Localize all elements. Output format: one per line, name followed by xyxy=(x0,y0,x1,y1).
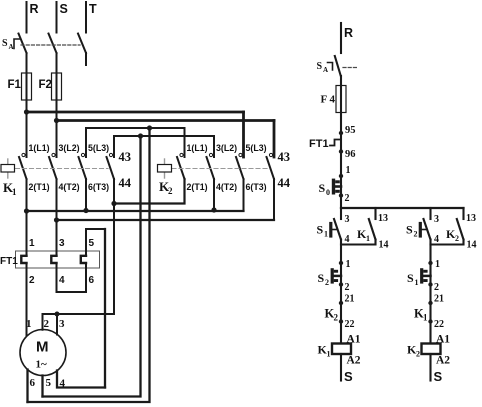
wire K1 4(T2) bottom stub xyxy=(56,179,58,220)
node junction aux44/motor2-3 xyxy=(111,201,116,206)
wire S to fuse F2 xyxy=(56,53,58,121)
coil K1 box xyxy=(1,165,15,173)
wire 96 to 1 xyxy=(340,152,342,177)
pushbutton S0 (NC stop) xyxy=(340,176,342,196)
svg-text:3: 3 xyxy=(434,214,439,225)
wire FT1 input 5 drop xyxy=(85,229,87,248)
node junction on line C at K1 4(T2) xyxy=(54,217,59,222)
node 2 (S1 right) xyxy=(428,282,432,286)
wire bus2 drop to K2 aux 43 xyxy=(273,121,276,158)
svg-text:1: 1 xyxy=(29,238,35,249)
bus line 4 xyxy=(114,135,214,137)
pushbutton S2 (NC) xyxy=(340,263,342,285)
svg-text:F2: F2 xyxy=(39,79,52,91)
wire coil to S xyxy=(340,354,342,381)
svg-text:6(T3): 6(T3) xyxy=(88,182,109,192)
K1 terminal labels xyxy=(29,143,110,192)
node 1 (S1 right) xyxy=(428,261,432,265)
node junction R/bus1 xyxy=(24,109,29,114)
svg-text:2: 2 xyxy=(168,186,173,196)
switch SA control label xyxy=(317,61,329,74)
wire coil to S (right) xyxy=(429,354,431,381)
FT1 terminal labels top xyxy=(29,238,95,249)
wire S1 bottom to node 1 xyxy=(340,240,342,264)
switch SA pole R blade xyxy=(19,34,27,54)
svg-text:6: 6 xyxy=(30,377,36,389)
node 22 (K2 interlock) xyxy=(339,319,343,323)
wire S2 bottom to node 1 (right) xyxy=(429,240,431,264)
svg-text:3: 3 xyxy=(59,238,65,249)
svg-text:2: 2 xyxy=(345,193,350,204)
contact K1 13-14 seal-in stub xyxy=(374,208,376,219)
switch SA linkage dashed xyxy=(21,44,80,46)
svg-text:FT1: FT1 xyxy=(309,138,329,150)
svg-text:21: 21 xyxy=(345,294,355,305)
wire output line A (K1 aux 44 to K2 2(T1)) xyxy=(114,179,185,204)
svg-text:2: 2 xyxy=(44,318,50,330)
thermal relay FT1 box xyxy=(16,251,100,268)
contactor K1 linkage dashed xyxy=(16,168,109,170)
wire K2 2(T1) bottom stub xyxy=(184,179,186,204)
contactor K2 pole 2 blade xyxy=(207,157,215,179)
svg-text:3(L2): 3(L2) xyxy=(216,143,237,153)
wire motor terminal 4 out xyxy=(57,371,105,388)
pushbutton S2 (NO start) blade xyxy=(424,219,431,240)
svg-text:S: S xyxy=(434,369,443,384)
wire S phase drop xyxy=(56,2,58,33)
wire motor terminal 3 stub xyxy=(56,314,58,335)
switch SA pole S blade xyxy=(49,34,57,54)
svg-text:14: 14 xyxy=(467,240,477,251)
fuse F2 xyxy=(52,73,62,100)
switch SA control dashed xyxy=(343,67,358,69)
svg-text:1: 1 xyxy=(324,230,328,239)
contact hooks K1/K2 fixed-contact marks xyxy=(22,153,273,156)
pushbutton S1 (NC right) xyxy=(429,263,431,285)
contact K2 13-14 blade xyxy=(457,219,464,240)
wire 22 to coil A1 xyxy=(340,322,342,344)
wire to 21 xyxy=(340,285,342,304)
wire S2 top stub xyxy=(429,208,431,219)
node junction bus3 / motor wire xyxy=(147,125,152,130)
svg-text:S: S xyxy=(406,223,413,237)
wire aux44 node down to motor 2/3 xyxy=(113,204,115,315)
svg-text:2(T1): 2(T1) xyxy=(187,182,208,192)
wire K1 aux 44 bottom stub xyxy=(113,179,115,204)
svg-text:T: T xyxy=(89,2,97,16)
contactor K1 pole 3 blade xyxy=(79,157,87,179)
wire K2 6(T3) bottom stub xyxy=(243,179,245,211)
coil K1 armature grey line xyxy=(7,159,9,178)
wire motor terminal 6 out xyxy=(26,370,28,403)
switch SA control actuator mark xyxy=(328,63,333,71)
pushbutton S1 actuator xyxy=(329,224,332,237)
wire branch rail xyxy=(341,207,464,209)
svg-text:5: 5 xyxy=(46,377,52,389)
svg-text:2: 2 xyxy=(414,230,418,239)
svg-text:44: 44 xyxy=(278,176,291,190)
contactor K2 pole 3 blade xyxy=(236,157,244,179)
svg-text:M: M xyxy=(36,339,49,356)
K2 terminal labels xyxy=(187,143,267,192)
switch SA pole T blade xyxy=(78,34,86,54)
wire output line C (K1 4T2 to K2 aux 44) xyxy=(57,219,275,221)
svg-text:1: 1 xyxy=(26,318,32,330)
switch SA label xyxy=(2,38,14,51)
node 22 (K1 interlock) xyxy=(428,319,432,323)
svg-text:1~: 1~ xyxy=(36,359,48,371)
coil K1 (control) xyxy=(332,344,351,355)
pushbutton S1 (NO start) blade xyxy=(334,219,341,240)
node junction on line B at K1 2(T1) xyxy=(24,208,29,213)
wire 22 to coil A1 (right) xyxy=(429,322,431,344)
coil K2 armature grey line xyxy=(164,159,166,178)
svg-text:5(L3): 5(L3) xyxy=(88,143,109,153)
svg-text:S: S xyxy=(407,271,414,285)
svg-text:3: 3 xyxy=(59,318,65,330)
wire bus4 drop to K2 3(L2) xyxy=(213,136,215,157)
svg-text:A: A xyxy=(323,66,328,74)
node 95 xyxy=(339,131,343,135)
FT1 pole 5-6 wire with heater xyxy=(85,248,87,292)
wire R to fuse F1 xyxy=(26,53,28,112)
wire to 21 (right) xyxy=(429,285,431,304)
switch SA manual actuator mark xyxy=(14,39,20,49)
svg-text:S: S xyxy=(2,38,8,49)
wire K1 3(L2) top stub xyxy=(56,121,58,158)
svg-text:2: 2 xyxy=(416,350,420,359)
wire T phase drop xyxy=(85,2,87,33)
bus line 1 (phase R) xyxy=(27,111,244,114)
svg-text:2: 2 xyxy=(334,313,339,323)
wire T stub (unconnected) xyxy=(85,53,87,65)
wire bus1 drop to K2 5(L3) xyxy=(242,112,245,157)
FT1 pole 1-2 wire with heater xyxy=(26,211,28,337)
contact K2 13-14 seal-in stub xyxy=(462,208,464,219)
svg-text:S: S xyxy=(318,271,325,285)
svg-text:1: 1 xyxy=(12,187,17,197)
svg-text:2: 2 xyxy=(434,282,439,293)
svg-text:4(T2): 4(T2) xyxy=(216,182,237,192)
fuse F1 xyxy=(22,73,32,100)
wire bus4 drop to K1 aux 43 xyxy=(113,136,115,157)
svg-text:S: S xyxy=(319,181,326,195)
wire bus3 drop to K1 5(L3) xyxy=(85,128,87,157)
node junction bus4 / motor wire xyxy=(138,133,143,138)
node junction on line B at K1 6(T3) xyxy=(83,208,88,213)
node 2 (S2) xyxy=(339,282,343,286)
wire S1 top stub xyxy=(340,208,342,219)
wire bus3 to motor terminal 6 (long loop) xyxy=(28,128,150,402)
svg-text:4(T2): 4(T2) xyxy=(59,182,80,192)
svg-text:1: 1 xyxy=(415,278,419,287)
wire K2 aux 44 bottom stub xyxy=(273,179,275,220)
svg-text:2: 2 xyxy=(455,234,459,243)
node 21 (K1 interlock) xyxy=(428,301,432,305)
node 1 (S0) xyxy=(339,174,343,178)
svg-text:43: 43 xyxy=(278,150,291,164)
svg-text:2: 2 xyxy=(325,278,329,287)
svg-text:21: 21 xyxy=(434,294,444,305)
wire K1 2(T1) bottom stub xyxy=(26,179,28,211)
contact K1 13-14 blade xyxy=(369,219,376,240)
FT1 pole 3-4 wire with heater xyxy=(56,220,58,292)
svg-text:2: 2 xyxy=(345,282,350,293)
svg-text:S: S xyxy=(344,369,353,384)
contactor K2 aux blade xyxy=(267,157,275,179)
svg-text:22: 22 xyxy=(345,319,355,330)
wire motor terminal 5 out xyxy=(41,376,43,397)
svg-text:43: 43 xyxy=(119,150,132,164)
contact K2 13-14 label xyxy=(446,227,459,243)
wire motor terminal 2 up and over xyxy=(43,314,115,330)
wire R phase drop xyxy=(26,2,28,33)
contact K1 21-22 interlock xyxy=(429,303,431,322)
switch SA control blade xyxy=(335,56,341,76)
svg-text:F 4: F 4 xyxy=(321,94,336,106)
node 96 xyxy=(339,149,343,153)
coil K1 label xyxy=(3,180,17,197)
motor terminal labels top xyxy=(26,318,65,330)
svg-text:44: 44 xyxy=(119,176,132,190)
svg-text:S: S xyxy=(60,2,68,16)
bus line 3 xyxy=(86,127,185,129)
svg-text:4: 4 xyxy=(434,234,439,245)
svg-text:R: R xyxy=(30,2,39,16)
svg-text:1(L1): 1(L1) xyxy=(29,143,50,153)
svg-text:A: A xyxy=(9,43,14,51)
svg-text:1: 1 xyxy=(423,313,428,323)
wire K1 6(T3) bottom stub xyxy=(85,179,87,211)
node 21 (K2 interlock) xyxy=(339,301,343,305)
contactor K1 aux blade xyxy=(107,157,115,179)
svg-text:5: 5 xyxy=(89,238,95,249)
svg-text:1: 1 xyxy=(327,350,331,359)
wire bus3 drop to K2 1(L1) xyxy=(184,128,186,157)
K2 aux terminal labels 43/44 xyxy=(278,150,291,190)
K1 aux terminal labels 43/44 xyxy=(119,150,132,190)
bus line 2 (phase S) xyxy=(57,119,275,122)
svg-text:14: 14 xyxy=(379,240,389,251)
svg-text:6: 6 xyxy=(89,275,95,286)
node 1 (S2) xyxy=(339,261,343,265)
wire bus4 to motor terminal 5 (long loop) xyxy=(43,136,141,397)
contact K2 21-22 interlock xyxy=(340,303,342,322)
wire jog FT1-5 to motor-4 riser xyxy=(86,228,105,230)
fuse F4 xyxy=(340,76,342,133)
svg-text:13: 13 xyxy=(378,213,388,224)
svg-text:3: 3 xyxy=(345,214,350,225)
svg-text:2(T1): 2(T1) xyxy=(29,182,50,192)
wire down to branch tee xyxy=(340,196,342,209)
wire 14 return to main xyxy=(341,240,376,245)
svg-text:2: 2 xyxy=(29,275,35,286)
node junction S/bus2 xyxy=(54,118,59,123)
contactor K1 pole 1 blade xyxy=(19,157,27,179)
svg-text:A2: A2 xyxy=(347,355,361,367)
svg-text:S: S xyxy=(317,61,323,72)
FT1 terminal labels bottom xyxy=(29,275,95,286)
svg-text:96: 96 xyxy=(345,149,356,160)
svg-text:3(L2): 3(L2) xyxy=(59,143,80,153)
wire K1 1(L1) top stub xyxy=(26,112,28,157)
svg-text:S: S xyxy=(317,223,324,237)
svg-text:13: 13 xyxy=(466,213,476,224)
svg-text:1: 1 xyxy=(346,165,351,176)
wire motor-4 riser xyxy=(104,229,106,388)
contact K1 13-14 label xyxy=(357,227,370,243)
wire U-link FT1 outputs 4-6 xyxy=(57,291,87,293)
svg-text:0: 0 xyxy=(326,188,330,197)
wire control R drop xyxy=(340,23,342,53)
node junction motor terminal 3 on wire xyxy=(55,312,60,317)
contactor K2 linkage dashed xyxy=(172,168,268,170)
motor terminal labels bottom xyxy=(30,377,66,390)
svg-text:FT1: FT1 xyxy=(0,256,18,267)
node junction on line B at K2 4(T2) xyxy=(211,207,216,212)
svg-text:1(L1): 1(L1) xyxy=(187,143,208,153)
svg-text:R: R xyxy=(344,26,353,40)
wire 14 return to main (right) xyxy=(431,240,464,245)
pushbutton S2 actuator xyxy=(419,224,422,237)
contact FT1 trip (95-96) xyxy=(340,133,342,152)
svg-text:95: 95 xyxy=(345,125,356,136)
node 2 (S0) xyxy=(339,193,343,197)
wire K2 4(T2) bottom stub xyxy=(213,179,215,210)
motor M circle xyxy=(20,330,66,376)
svg-text:A2: A2 xyxy=(436,355,450,367)
svg-text:22: 22 xyxy=(434,319,444,330)
svg-text:F1: F1 xyxy=(8,79,22,91)
svg-text:6(T3): 6(T3) xyxy=(246,182,267,192)
svg-text:1: 1 xyxy=(435,259,440,270)
contactor K1 pole 2 blade xyxy=(49,157,57,179)
wire output line B (K1 2T1,6T3,K2 4T2,6T3) xyxy=(27,210,244,212)
svg-text:4: 4 xyxy=(59,275,65,286)
coil K2 box xyxy=(158,165,172,173)
svg-text:5(L3): 5(L3) xyxy=(246,143,267,153)
coil K2 (control) xyxy=(422,344,441,355)
svg-text:4: 4 xyxy=(345,234,350,245)
coil K2 label xyxy=(159,179,173,196)
svg-text:1: 1 xyxy=(346,259,351,270)
svg-text:1: 1 xyxy=(366,234,370,243)
contactor K2 pole 1 blade xyxy=(177,157,185,179)
